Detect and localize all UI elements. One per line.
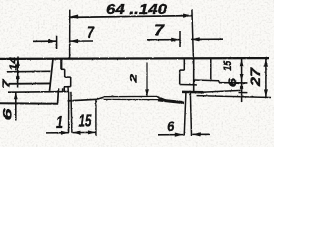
svg-text:7: 7 bbox=[87, 24, 95, 41]
wire right tick y92.4 bbox=[239, 92, 248, 94]
wire right inner vertical bbox=[210, 59, 212, 81]
arrow right 15 up bbox=[240, 59, 244, 66]
arrow bottom 15 left bbox=[73, 131, 81, 135]
arrow 27 up bbox=[264, 59, 268, 67]
arrow bottom 6 pointing right bbox=[175, 133, 184, 137]
wire left leg lower wall left bbox=[63, 87, 65, 92]
wire left shelf top y92 bbox=[8, 91, 69, 94]
wire left leg step1 vertical bbox=[64, 69, 66, 77]
wire left leg step2 vertical bbox=[70, 77, 72, 87]
wire left leg lower wall right bbox=[67, 87, 69, 92]
wire bottom right 6 dim tail right bbox=[192, 133, 210, 135]
wire center base line left bbox=[68, 99, 97, 101]
wire left leg inner edge upper bbox=[60, 59, 62, 70]
svg-text:27: 27 bbox=[247, 67, 263, 88]
svg-text:6: 6 bbox=[227, 78, 239, 87]
wire left channel wall right lower bbox=[71, 92, 72, 133]
wire right leg step vertical bbox=[179, 70, 181, 84]
wire bottom right 6 dim tail left bbox=[158, 134, 183, 136]
wire center base line right bbox=[158, 100, 184, 103]
wire left leg inner stub bbox=[62, 88, 64, 92]
wire left leg step1 horizontal bbox=[61, 68, 65, 70]
arrow right 6 down bbox=[240, 86, 244, 92]
wire right leg lower wall left bbox=[184, 93, 186, 136]
wire left leg outer edge bbox=[49, 59, 53, 93]
wire right 15-6 dim line bbox=[241, 59, 243, 102]
wire dimension line 64..140 bbox=[70, 16, 192, 18]
wire right shelf top thin bbox=[204, 90, 241, 92]
wire right bottom ext line bbox=[197, 96, 272, 98]
arrow 2 down bbox=[145, 89, 149, 96]
wire extension line left (64..140) bbox=[69, 10, 71, 59]
arrow 7 up bbox=[16, 72, 20, 79]
arrow left7 pointing left bbox=[70, 39, 79, 43]
arrow 64..140 left bbox=[70, 15, 79, 19]
wire right leg lower wall right bbox=[190, 93, 191, 136]
wire right mid line y80 bbox=[194, 79, 219, 82]
wire right 7 dim tail right bbox=[191, 38, 223, 40]
wire right 7 tick bbox=[179, 31, 181, 47]
arrow right7 pointing left bbox=[191, 37, 200, 41]
arrow bottom 6 pointing left bbox=[192, 132, 201, 136]
arrow 27 down bbox=[264, 90, 268, 98]
svg-text:15: 15 bbox=[79, 111, 92, 131]
wire base under pad bbox=[104, 98, 158, 100]
wire left 7 dim tail right bbox=[70, 40, 93, 42]
wire left ext line y83.5 bbox=[9, 82, 51, 84]
arrow right 15 down bbox=[240, 74, 244, 81]
arrow right7 pointing right bbox=[171, 38, 180, 42]
wire left 7 tick bbox=[56, 36, 58, 49]
wire 2 dim line bbox=[146, 63, 148, 97]
wire 27 dim line bbox=[265, 59, 267, 97]
svg-text:64 ..140: 64 ..140 bbox=[106, 1, 168, 18]
wire extension line right (64..140) bbox=[192, 9, 194, 58]
arrow 64..140 right bbox=[183, 14, 192, 18]
wire pad ramp right bbox=[157, 97, 167, 101]
wire right shelf thick top bbox=[182, 91, 204, 94]
svg-text:15: 15 bbox=[222, 60, 234, 70]
wire left stack dim line bbox=[17, 57, 19, 88]
wire left leg step bottom close bbox=[64, 86, 71, 88]
svg-text:1: 1 bbox=[56, 112, 63, 132]
wire left lower 6 dim line bbox=[15, 92, 17, 120]
wire right leg outer edge bbox=[193, 59, 195, 92]
arrow 14 up bbox=[16, 59, 20, 66]
wire left bottom edge y103.5 bbox=[0, 102, 58, 104]
wire left 7 dim tail left bbox=[33, 40, 57, 42]
wire left leg step2 horizontal bbox=[65, 76, 71, 78]
svg-text:7: 7 bbox=[154, 22, 166, 39]
svg-text:2: 2 bbox=[129, 74, 139, 84]
wire bottom 1-15 dim tail left bbox=[46, 132, 69, 134]
wire right 7 dim tail left bbox=[147, 39, 180, 41]
wire right leg inner edge upper bbox=[183, 59, 185, 71]
svg-text:6: 6 bbox=[167, 118, 174, 134]
wire pad top bbox=[104, 95, 157, 97]
wire left shelf right edge bbox=[57, 88, 60, 103]
wire right small step bbox=[218, 81, 220, 83]
wire top surface line bbox=[0, 57, 269, 60]
arrow bottom 15 right bbox=[88, 130, 96, 134]
arrow bottom 1 pointing right bbox=[61, 131, 69, 135]
svg-text:14: 14 bbox=[9, 57, 20, 71]
wire bottom 15 dim line bbox=[73, 131, 96, 133]
wire pad ramp left bbox=[97, 97, 104, 99]
arrow right 6 up bbox=[240, 83, 244, 89]
wire right ext line y82.4 bbox=[219, 82, 247, 84]
wire bottom 15 ext line bbox=[95, 100, 97, 136]
wire left channel wall left lower bbox=[68, 92, 70, 133]
wire left ext line y71.5 bbox=[7, 70, 51, 73]
arrow left7 pointing right bbox=[48, 39, 57, 43]
wire right leg step bottom close bbox=[180, 84, 197, 86]
wire right leg step1 horizontal bbox=[180, 69, 185, 71]
arrow 7 down bbox=[16, 76, 20, 83]
arrow left 6 up bbox=[14, 92, 18, 99]
svg-text:6: 6 bbox=[1, 108, 14, 121]
arrow 14 down bbox=[16, 64, 20, 71]
